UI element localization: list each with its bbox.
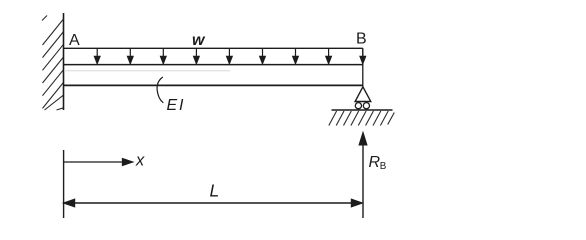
distributed load arrows (94, 48, 365, 63)
distributed load top line (64, 47, 363, 49)
roller circle right (363, 103, 369, 109)
EI leader curve (157, 77, 163, 103)
roller support triangle at B (355, 87, 371, 102)
wall face line (63, 13, 65, 110)
svg-text:B: B (356, 31, 367, 48)
beam right end line at B (362, 48, 364, 86)
reaction arrow R_B (359, 133, 366, 218)
wall hatching (fixed support at A) (42, 16, 64, 111)
svg-text:EI: EI (167, 97, 186, 114)
beam top line (64, 64, 363, 66)
svg-text:x: x (135, 152, 145, 170)
roller circle left (355, 103, 361, 109)
svg-text:w: w (192, 32, 206, 49)
x-axis origin line (left extension) (63, 150, 65, 218)
ground line under roller (332, 109, 393, 111)
beam bottom line (64, 84, 363, 86)
x-axis arrow (64, 159, 133, 166)
ground hatching (329, 111, 395, 126)
svg-text:R: R (369, 154, 381, 171)
faint scan ghost line inside beam (64, 70, 230, 72)
dimension line L with arrowheads (64, 199, 362, 206)
svg-text:B: B (380, 161, 387, 172)
svg-text:A: A (69, 32, 80, 49)
svg-text:L: L (210, 180, 220, 200)
